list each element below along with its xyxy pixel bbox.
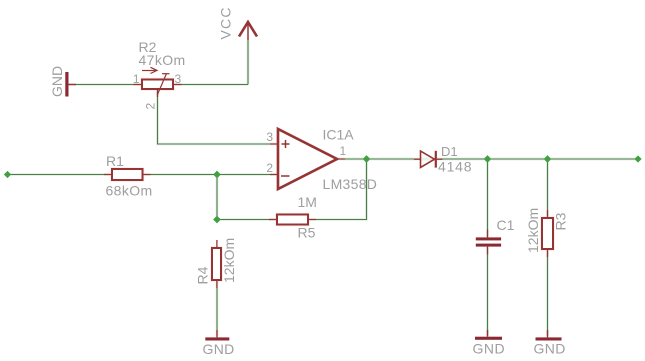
op-amp plus sign (282, 140, 290, 148)
R5 pin stubs (269, 219, 316, 221)
node output junction (363, 155, 371, 163)
diode pin stubs (414, 158, 443, 160)
op-amp minus sign (281, 175, 290, 177)
svg-text:D1: D1 (441, 144, 458, 159)
wire to VCC (247, 40, 249, 85)
svg-text:GND: GND (49, 66, 65, 97)
svg-text:GND: GND (534, 341, 566, 357)
svg-text:12kOm: 12kOm (221, 238, 237, 283)
svg-text:68kOm: 68kOm (106, 183, 153, 199)
R2 pin stubs (134, 85, 182, 98)
svg-text:2: 2 (144, 103, 158, 110)
wire feedback right to output (308, 159, 367, 220)
wire R4 branch (216, 248, 218, 335)
wire feedback left (217, 219, 277, 221)
svg-text:4148: 4148 (438, 159, 472, 175)
ground symbol under C1 (475, 337, 502, 340)
VCC symbol arrow (239, 22, 257, 40)
svg-text:1: 1 (340, 144, 347, 158)
svg-text:2: 2 (266, 161, 273, 175)
svg-text:C1: C1 (497, 217, 515, 233)
svg-text:3: 3 (266, 130, 273, 144)
pin stubs maroon (104, 85, 548, 289)
ground pin stub top-left (68, 84, 76, 86)
svg-text:47kOm: 47kOm (139, 52, 186, 68)
diode D1 (421, 151, 436, 168)
svg-text:GND: GND (473, 341, 506, 357)
ground symbol under R3 (536, 337, 562, 340)
wire junction to feedback node (216, 175, 218, 220)
potentiometer R2 wiper diagonal (158, 74, 170, 95)
resistor R1 (112, 169, 143, 180)
ground symbol top-left (65, 72, 68, 97)
svg-text:12kOm: 12kOm (525, 208, 541, 253)
node right output end (634, 155, 641, 162)
svg-text:LM358D: LM358D (323, 176, 378, 192)
svg-text:VCC: VCC (218, 6, 234, 39)
wire R3 branch (547, 159, 549, 335)
ground pin stub under R3 (547, 330, 549, 337)
wire pot wiper to op-amp pin3 (158, 89, 279, 145)
wire diode to right edge (436, 158, 639, 160)
svg-text:R4: R4 (195, 266, 211, 284)
R3 pin stubs (547, 210, 549, 257)
node R3 top junction (544, 155, 552, 163)
resistor R5 (277, 215, 308, 225)
svg-text:1M: 1M (298, 194, 317, 210)
svg-text:3: 3 (175, 72, 182, 86)
svg-text:GND: GND (203, 341, 235, 357)
node feedback junction (213, 216, 221, 224)
op-amp pin stubs (270, 144, 345, 175)
ground pin stub under C1 (487, 330, 489, 337)
svg-text:R5: R5 (298, 225, 316, 241)
R4 pin stubs (216, 240, 218, 288)
node C1 top junction (484, 155, 492, 163)
node input/feedback junction (213, 171, 221, 179)
resistor R4 (212, 248, 221, 280)
capacitor C1 plates (476, 237, 501, 246)
potentiometer R2 body (142, 80, 173, 90)
potentiometer R2 direction arrow (142, 67, 157, 73)
wire C1 branch (487, 159, 489, 335)
svg-text:R3: R3 (553, 212, 569, 230)
ground pin stub under R4 (216, 330, 218, 337)
resistor R3 (542, 218, 553, 249)
wire main input (8, 174, 278, 176)
junction dots (4, 155, 642, 223)
svg-text:1: 1 (133, 72, 140, 86)
ground symbol under R4 (205, 337, 229, 340)
net: main input wire (8, 40, 639, 335)
svg-text:IC1A: IC1A (323, 127, 355, 143)
op-amp U1 triangle (278, 129, 337, 189)
wire output (337, 158, 415, 160)
R1 pin stubs (104, 174, 151, 176)
C1 pin stubs (487, 230, 489, 255)
component halos (112, 80, 553, 281)
node left input end (4, 171, 11, 178)
wire pot row (68, 84, 248, 86)
svg-text:R1: R1 (106, 153, 124, 169)
